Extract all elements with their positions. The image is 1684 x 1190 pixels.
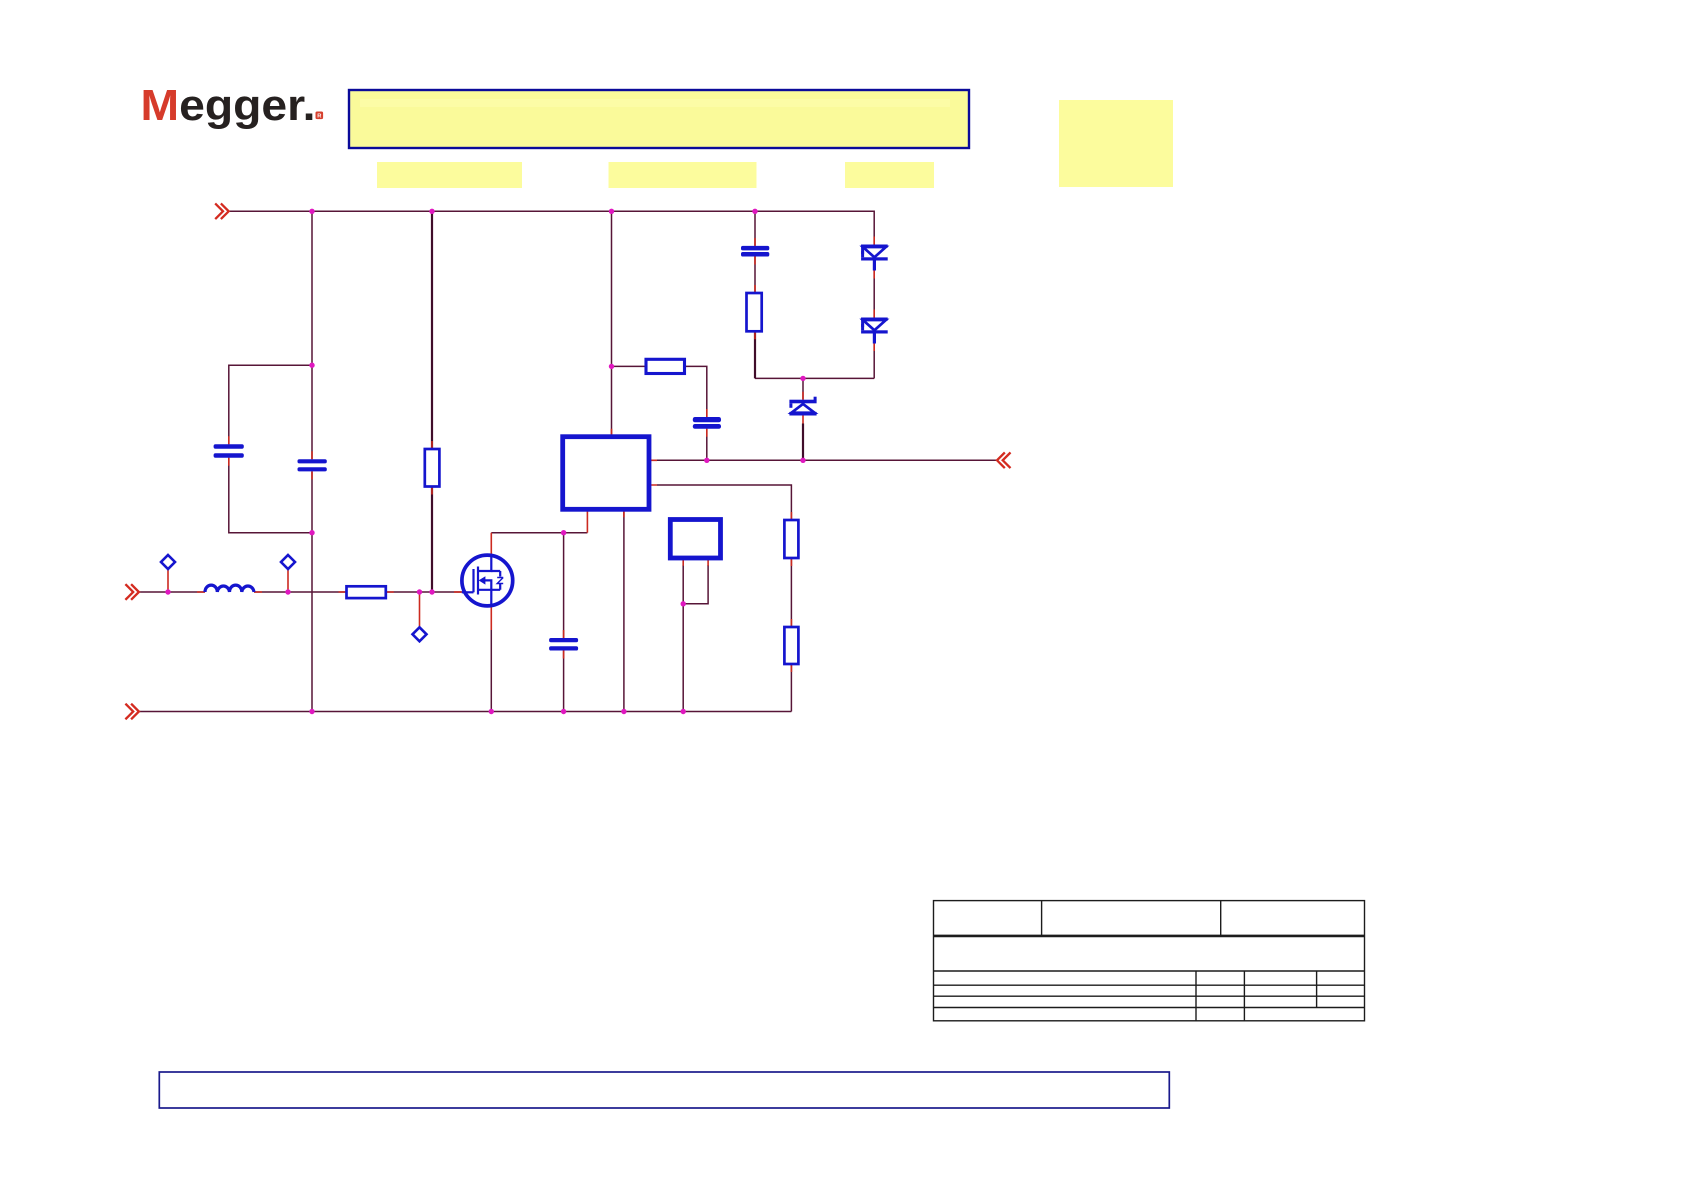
svg-text:Megger.: Megger.: [141, 82, 316, 130]
